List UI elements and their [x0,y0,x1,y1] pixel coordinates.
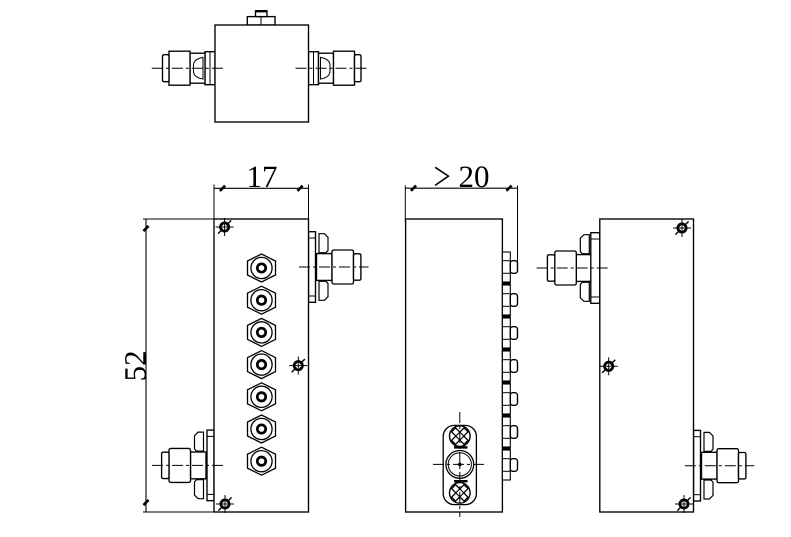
front view body [214,219,309,512]
screw profile 2 base [502,285,510,315]
right view top connector coupling step [576,255,592,282]
side view body [406,219,503,512]
flange connector face outline [443,425,476,504]
screw profile 2 tip [510,294,517,307]
side dim >20 extension lines [404,186,406,223]
strip separator band [502,414,510,417]
screw profile 3 base [502,318,510,348]
screw profile 6 tip [510,426,517,439]
tangency band top [454,446,468,448]
flange horizontal centerline [433,463,487,465]
right view bottom connector coupling step [702,452,718,479]
strip separator band [502,282,510,285]
top view right centerline [296,67,370,69]
screw profile 3 tip [510,327,517,340]
top view cover screw base [247,17,275,25]
flange center circle [446,451,474,479]
right bottom screw [675,495,693,513]
right view top connector barrel [555,251,577,285]
screw profile 4 base [502,351,510,381]
screw profile 6 base [502,417,510,447]
front output connector coupling step [317,254,333,281]
top view left connector barrel [169,51,190,85]
side dim text >20 [435,167,448,185]
top view right connector end cap [355,55,362,82]
front output connector nut ear top [319,234,328,253]
right view bottom connector barrel [717,449,739,483]
front dim 17 extension lines [213,185,215,220]
front dim text 17 [249,167,276,187]
tangency band bottom [454,480,468,482]
front bottom screw [216,495,234,513]
right view top connector nut ear top [580,235,589,254]
front dim text 52 [125,352,146,379]
front input connector nut ear bottom [195,480,204,499]
tuning nut 2 [248,286,276,314]
front input connector nut ear top [195,432,204,451]
strip separator band [502,381,510,384]
right view bottom connector nut ear top [704,432,713,451]
top view left connector washer plates [205,52,215,85]
screw profile 5 tip [510,393,517,406]
front top screw [216,218,234,236]
strip separator band [502,447,510,450]
front output connector centerline [299,266,369,268]
right view top connector nut ear bottom [580,282,589,301]
tuning nut 3 [248,318,276,346]
flange bottom mounting screw [450,483,471,504]
right bottom connector centerline [685,465,755,467]
front output connector nut ear bottom [319,281,328,300]
front middle screw [289,357,307,375]
top view body [215,25,309,122]
right top screw [673,219,691,237]
strip separator band [502,348,510,351]
screw profile 5 base [502,384,510,414]
right view body [600,219,694,512]
front input connector coupling step [191,452,207,479]
front dim 52 extension lines [143,218,215,220]
front output connector barrel [332,250,354,284]
top view cover screw head [256,11,268,16]
top view left connector hex nut [190,53,205,83]
right middle screw [600,357,618,375]
screw profile 1 base [502,252,510,282]
right view top connector flange plate [591,233,600,304]
screw profile 7 tip [510,459,517,472]
screw profile 7 base [502,450,510,480]
right view bottom connector nut ear bottom [704,480,713,499]
front input connector end cap [162,452,169,478]
top view right connector hex flat profile [321,57,331,79]
right view bottom connector end cap [739,453,746,479]
right top connector centerline [537,267,609,269]
side dim >20 line [405,187,517,189]
flange top mounting screw [450,426,471,447]
top view left connector hex flat profile [194,57,204,79]
tuning nut 4 [248,351,276,379]
top view right connector barrel [334,51,355,85]
top view right connector washer plates [309,52,319,85]
front input connector barrel [169,448,191,482]
strip separator band [502,315,510,318]
front dim 52 line [145,219,147,512]
top view left connector end cap [163,55,170,82]
front output connector end cap [354,254,361,280]
right view bottom connector flange plate [694,430,701,501]
tuning nut 1 [248,254,276,282]
screw profile 1 tip [510,261,517,274]
top view left centerline [152,67,223,69]
screw profile 4 tip [510,360,517,373]
top view right connector hex nut [319,53,334,83]
flange vertical centerline [459,412,461,517]
tuning nut 7 [248,447,276,475]
front input connector centerline [152,464,223,466]
tuning nut 5 [248,383,276,411]
right view top connector end cap [547,255,554,281]
tuning nut 6 [248,415,276,443]
front input connector flange plate [207,430,214,501]
front dim 17 line [214,187,309,189]
front output connector flange plate [309,232,316,303]
